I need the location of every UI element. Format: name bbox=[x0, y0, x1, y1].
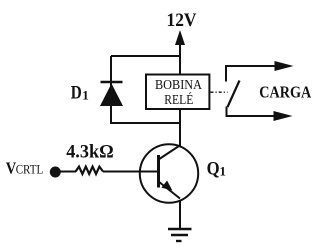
svg-text:4.3kΩ: 4.3kΩ bbox=[66, 142, 114, 163]
node input terminal dot bbox=[50, 167, 61, 178]
svg-text:CRTL: CRTL bbox=[16, 161, 44, 176]
dash-dot mechanical link relay to switch bbox=[211, 91, 228, 93]
ground symbol bbox=[168, 229, 192, 241]
switch top fixed contact wire bbox=[226, 66, 276, 82]
12V supply arrow bbox=[175, 30, 185, 57]
svg-text:Q: Q bbox=[207, 160, 220, 180]
svg-text:CARGA: CARGA bbox=[259, 83, 312, 102]
svg-text:BOBINA: BOBINA bbox=[155, 77, 202, 92]
switch top output arrow bbox=[275, 61, 294, 71]
transistor Q1 base bar bbox=[157, 155, 160, 188]
wire bottom horizontal from diode to collector line bbox=[111, 122, 181, 124]
transistor Q1 emitter diagonal bbox=[159, 182, 181, 199]
transistor Q1 circle bbox=[140, 144, 198, 202]
diode D1 cathode bar bbox=[101, 81, 123, 84]
svg-text:1: 1 bbox=[82, 87, 89, 102]
relay coil box BOBINA RELE bbox=[146, 75, 209, 110]
switch bottom output arrow bbox=[274, 111, 293, 121]
transistor Q1 collector diagonal bbox=[159, 145, 181, 160]
wire input dot to resistor bbox=[55, 171, 76, 173]
wire relay coil to transistor collector bbox=[179, 109, 181, 146]
resistor R 4.3k zigzag bbox=[76, 167, 103, 174]
switch blade bbox=[228, 81, 240, 108]
svg-text:1: 1 bbox=[220, 163, 227, 178]
diode D1 triangle bbox=[100, 84, 123, 107]
wire emitter to ground bbox=[179, 200, 181, 229]
switch bottom contact wire bbox=[227, 107, 276, 117]
wire top horizontal from diode branch to supply bbox=[111, 55, 181, 57]
diode D1 branch vertical wire bbox=[110, 56, 112, 124]
wire supply vertical down to relay coil bbox=[179, 56, 181, 75]
svg-text:D: D bbox=[71, 83, 82, 103]
svg-text:12V: 12V bbox=[167, 10, 197, 31]
svg-text:RELÉ: RELÉ bbox=[164, 92, 193, 107]
wire resistor to transistor base bbox=[103, 171, 158, 173]
transistor Q1 emitter arrowhead bbox=[161, 181, 172, 191]
